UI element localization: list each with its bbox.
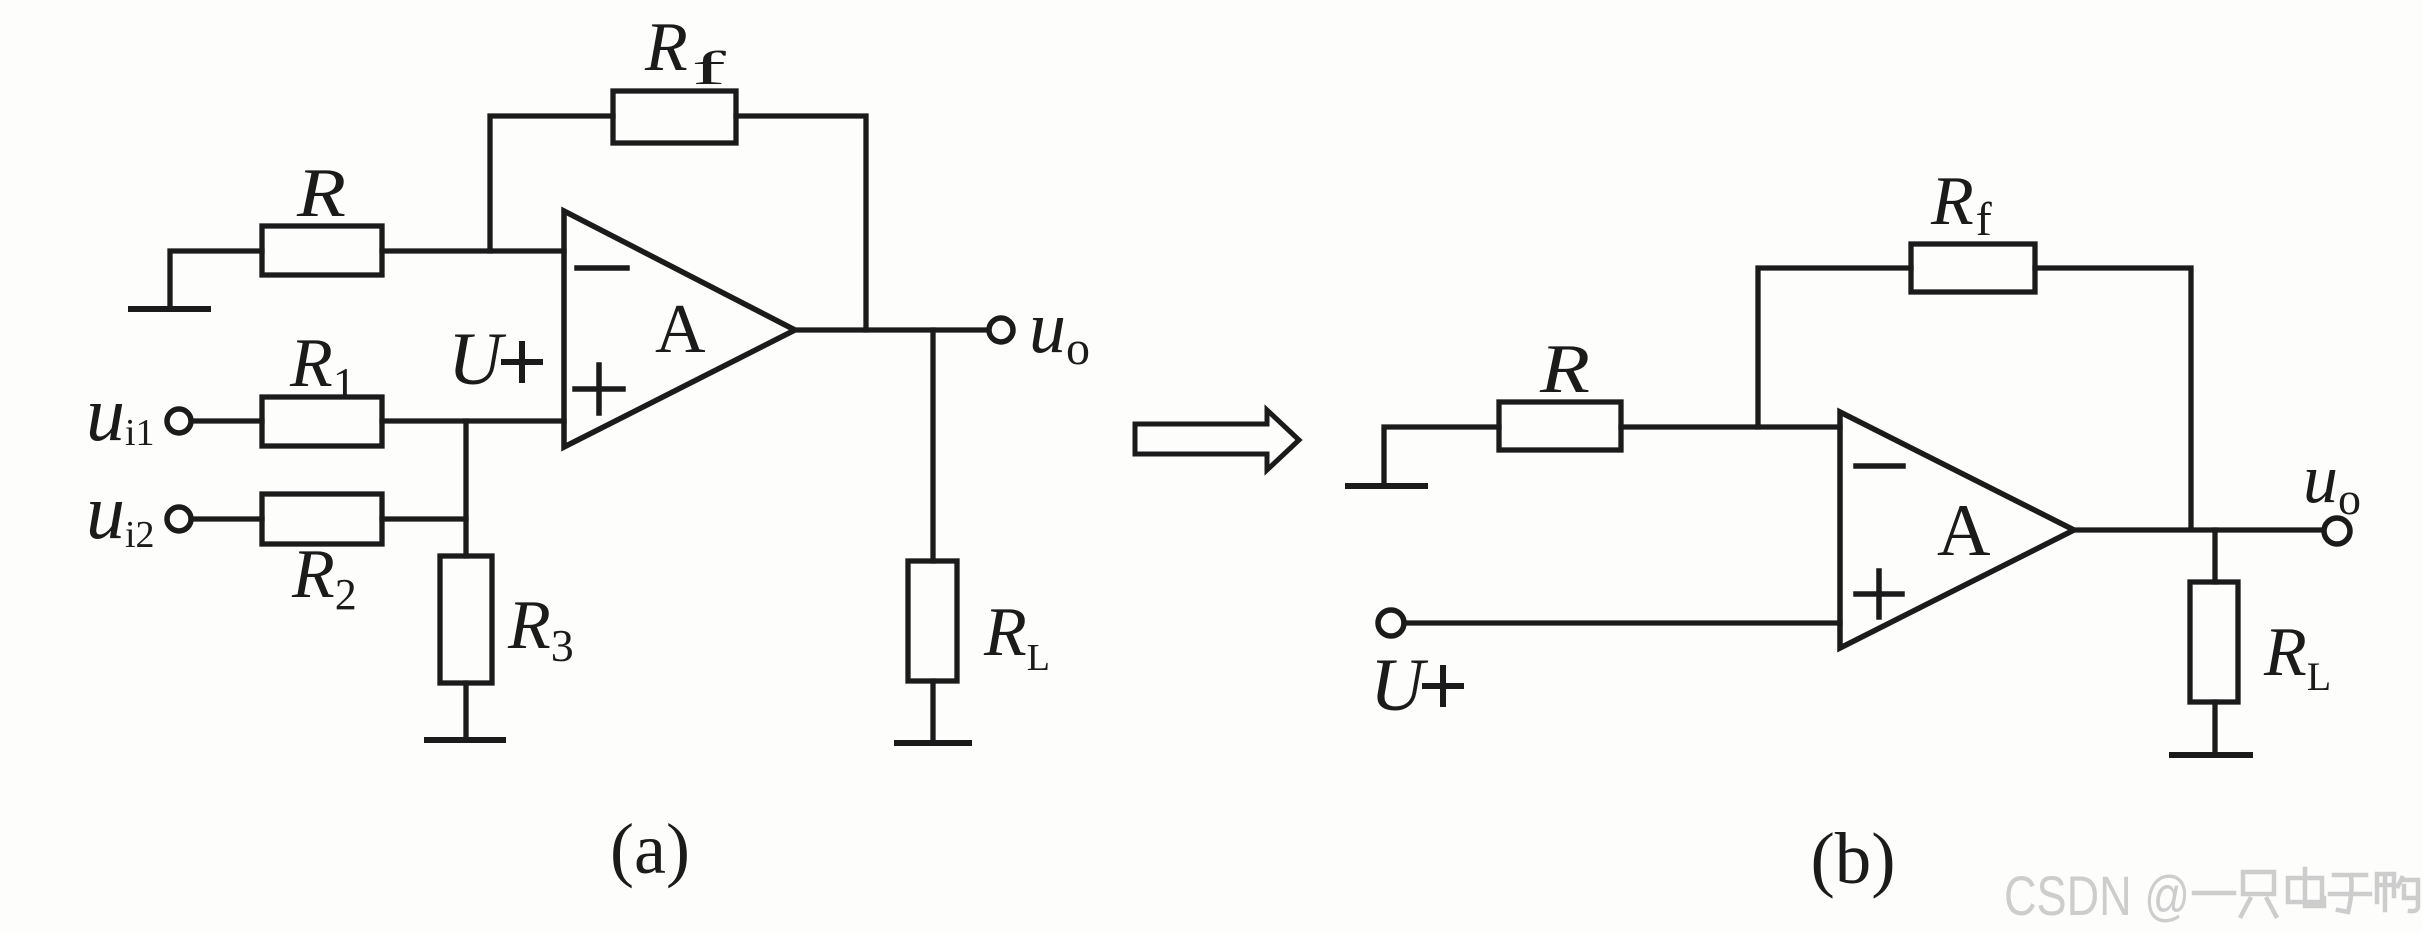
wire feedback left (b)	[1758, 268, 1911, 427]
terminal uo (b)	[2324, 518, 2350, 544]
label U+ (a)	[448, 318, 540, 401]
terminal U+ (b)	[1378, 610, 1404, 636]
svg-text:U: U	[448, 318, 507, 401]
terminal ui1 (a)	[167, 409, 191, 433]
wire to RL (a)	[930, 330, 935, 561]
svg-text:U: U	[1370, 644, 1429, 727]
wire RL to ground (a)	[930, 681, 935, 740]
svg-text:RL: RL	[2263, 614, 2331, 699]
svg-text:Rf: Rf	[1930, 163, 1992, 246]
wire ui1 to R1	[193, 418, 262, 423]
svg-text:(a): (a)	[610, 809, 690, 889]
resistor R3 (a)	[440, 556, 492, 683]
ground (b input)	[1348, 483, 1425, 489]
ground (RL a)	[897, 740, 969, 746]
wire ui2 to R2	[193, 516, 262, 521]
resistor R1 (a)	[262, 397, 382, 446]
wire R to inverting input (a)	[382, 248, 564, 253]
wire feedback right (b)	[2035, 268, 2191, 529]
terminal uo (a)	[989, 318, 1013, 342]
svg-text:R: R	[1539, 331, 1590, 408]
resistor R (b)	[1499, 402, 1621, 450]
svg-text:R1: R1	[289, 325, 356, 409]
svg-text:R: R	[296, 155, 346, 232]
wire feedback left (a)	[490, 116, 613, 251]
wire R to ground corner (b)	[1384, 427, 1499, 483]
wire R to ground corner (a)	[170, 251, 262, 306]
svg-text:RL: RL	[983, 594, 1050, 679]
terminal ui2 (a)	[167, 507, 191, 531]
wire R3 to ground	[463, 683, 468, 737]
wire RL to ground (b)	[2212, 702, 2217, 752]
svg-text:R2: R2	[291, 536, 357, 619]
svg-text:Rf: Rf	[644, 9, 726, 95]
resistor Rf (b)	[1911, 244, 2035, 292]
svg-text:(b): (b)	[1810, 818, 1895, 899]
wire R1 to non-inverting input (a)	[382, 418, 564, 423]
wire output (a)	[795, 327, 988, 332]
wire node column (a)	[463, 421, 468, 556]
svg-text:R3: R3	[507, 587, 574, 671]
wire output (b)	[2074, 527, 2324, 532]
wire U+ to non-inverting input (b)	[1404, 620, 1840, 625]
op-amp A (a)	[564, 211, 795, 447]
svg-text:ui1: ui1	[86, 370, 155, 457]
wire to RL (b)	[2212, 530, 2217, 582]
svg-text:CSDN @: CSDN @	[2004, 864, 2190, 927]
svg-text:uo: uo	[1029, 287, 1090, 375]
ground (RL b)	[2172, 752, 2250, 758]
svg-text:A: A	[1937, 490, 1990, 572]
resistor R2 (a)	[262, 494, 382, 544]
svg-text:uo: uo	[2303, 441, 2361, 524]
watermark chinese glyphs	[2194, 869, 2418, 916]
resistor Rf (a)	[613, 91, 736, 143]
svg-text:A: A	[655, 291, 706, 368]
wire R to inverting input (b)	[1621, 424, 1840, 429]
svg-text:ui2: ui2	[86, 468, 155, 556]
ground (R3)	[427, 737, 503, 743]
ground (a input)	[131, 306, 208, 312]
resistor RL (b)	[2190, 582, 2238, 702]
resistor RL (a)	[908, 561, 957, 681]
resistor R (a)	[262, 226, 382, 275]
watermark CSDN	[2004, 864, 2190, 927]
label U+ (b)	[1370, 644, 1461, 727]
wire R2 to node junction	[382, 516, 466, 521]
arrow between circuits	[1135, 410, 1299, 470]
op-amp A (b)	[1840, 412, 2074, 648]
wire feedback right (a)	[736, 116, 866, 330]
